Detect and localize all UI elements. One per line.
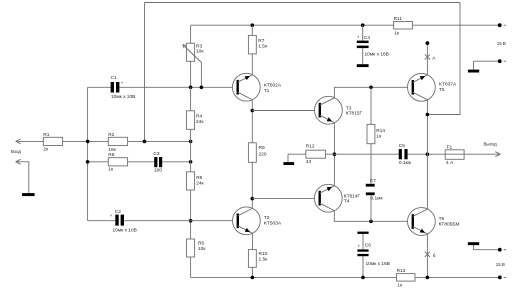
transistor T4 KT814 — [314, 184, 360, 212]
svg-text:0.1мк: 0.1мк — [399, 160, 412, 166]
node -15V terminal — [498, 276, 502, 280]
svg-text:10мк x 10В: 10мк x 10В — [113, 227, 137, 233]
svg-text:+: + — [357, 35, 360, 40]
wire T6 emitter down — [426, 234, 428, 278]
wire C2 line to T2 base — [88, 220, 238, 222]
capacitor C6 — [362, 234, 364, 278]
wire T2 emitter to R10 — [251, 233, 253, 249]
svg-text:КТ814Г: КТ814Г — [344, 193, 361, 199]
node test point A — [425, 54, 430, 59]
svg-text:R9: R9 — [259, 145, 265, 151]
node ground terminal top — [498, 59, 502, 63]
svg-text:R8: R8 — [108, 152, 114, 158]
wire input line — [16, 140, 191, 142]
svg-text:R13: R13 — [397, 268, 406, 274]
node terminal A — [426, 41, 430, 45]
svg-text:R10: R10 — [259, 251, 268, 257]
svg-text:Выход: Выход — [484, 142, 498, 147]
wire R3 column top — [190, 25, 192, 43]
ground C4 — [357, 64, 369, 67]
resistor R13 — [397, 274, 415, 282]
ground input — [22, 193, 34, 196]
ground bottom right — [468, 242, 479, 245]
resistor R6 — [187, 239, 195, 257]
svg-text:R1: R1 — [43, 132, 49, 138]
svg-text:T1: T1 — [264, 88, 270, 94]
node T2 collector junction — [251, 197, 255, 201]
svg-text:T6: T6 — [439, 216, 445, 222]
transistor T2 KT503A — [233, 207, 282, 235]
wire R10 bottom — [251, 267, 253, 277]
wire T5 emitter terminal column — [426, 43, 428, 75]
node input bus junction — [86, 140, 90, 144]
svg-text:43: 43 — [306, 159, 312, 165]
node R4 bottom junction — [189, 140, 193, 144]
capacitor C5 — [399, 149, 402, 159]
resistor R7 — [248, 35, 256, 54]
svg-text:C4: C4 — [364, 35, 370, 41]
svg-text:C3: C3 — [153, 151, 159, 157]
svg-text:C5: C5 — [399, 143, 405, 149]
svg-text:C6: C6 — [365, 243, 371, 249]
svg-text:16к: 16к — [108, 147, 116, 153]
svg-text:KT503A: KT503A — [264, 220, 282, 226]
node wiper-base junction — [200, 86, 204, 90]
svg-text:C1: C1 — [111, 75, 117, 81]
svg-text:1.5к: 1.5к — [258, 44, 268, 50]
node C3-R5 junction — [189, 160, 193, 164]
node test point b — [425, 252, 430, 257]
node R10 bottom junction — [251, 276, 255, 280]
node rail-C4 junction — [361, 23, 365, 27]
svg-text:R2: R2 — [108, 132, 114, 138]
wire C5 to F1 — [408, 153, 446, 155]
wire left frame vertical — [144, 3, 146, 142]
capacitor C3 — [154, 157, 157, 167]
transistor T6 KT805 — [408, 208, 460, 236]
node emitters R12 junction — [333, 152, 337, 156]
resistor R14 — [367, 124, 375, 143]
wire T1 base line with C1 — [88, 86, 238, 88]
wire top right ground branch — [474, 61, 500, 69]
resistor R11 — [394, 22, 413, 30]
wire +15V rail — [191, 24, 500, 26]
node T5-frame junction — [426, 113, 430, 117]
wire top feedback frame — [145, 2, 461, 4]
wire R3 bottom — [190, 61, 192, 87]
svg-text:R3: R3 — [196, 43, 202, 49]
node rail-R7 junction — [251, 23, 255, 27]
ground C6 top — [357, 232, 368, 234]
capacitor C7 — [366, 184, 375, 187]
node T6 emitter junction — [426, 276, 430, 280]
wire input arrow — [16, 139, 21, 144]
node T1 collector junction — [251, 109, 255, 113]
svg-text:KT837A: KT837A — [439, 82, 457, 88]
svg-text:T4: T4 — [344, 198, 350, 204]
svg-text:R11: R11 — [394, 16, 403, 22]
wire R8 line with C3 — [88, 161, 191, 163]
svg-text:КТ805БМ: КТ805БМ — [439, 221, 460, 227]
svg-text:R14: R14 — [376, 128, 385, 134]
ground R12 — [283, 162, 294, 165]
svg-text:1.5к: 1.5к — [259, 257, 269, 263]
svg-text:10мк x 10В: 10мк x 10В — [111, 94, 135, 100]
svg-text:10мк x 16В: 10мк x 16В — [365, 51, 389, 57]
svg-text:F1: F1 — [447, 145, 453, 151]
resistor R4 — [187, 111, 195, 130]
node C6 bottom junction — [361, 276, 365, 280]
svg-text:R7: R7 — [258, 38, 264, 44]
wire T1 collector to R9 — [251, 100, 253, 143]
svg-text:100: 100 — [154, 168, 162, 174]
wire R14 C7 column — [370, 87, 372, 221]
svg-text:б: б — [433, 253, 436, 259]
transistor T1 KT502A — [232, 73, 281, 101]
wire right frame vertical — [427, 3, 460, 115]
wire T5 collector down — [426, 100, 428, 209]
wire R12 ground branch — [288, 154, 306, 162]
svg-text:КТ815Г: КТ815Г — [346, 111, 363, 117]
svg-text:R5: R5 — [196, 175, 202, 181]
svg-text:15 В: 15 В — [496, 262, 505, 267]
capacitor C1 — [111, 82, 114, 93]
svg-text:4 А: 4 А — [446, 160, 454, 166]
svg-text:0.1мк: 0.1мк — [371, 195, 384, 201]
wire input ground branch — [16, 162, 29, 193]
svg-text:24к: 24к — [196, 119, 204, 125]
wire R12 to output line — [326, 153, 399, 155]
svg-text:220: 220 — [259, 151, 267, 157]
svg-text:T3: T3 — [346, 105, 352, 111]
node R8 bus junction — [86, 160, 90, 164]
wire T2c to T4 base — [252, 198, 319, 200]
svg-text:+: + — [110, 213, 113, 218]
svg-text:C2: C2 — [115, 209, 121, 215]
svg-text:T2: T2 — [264, 215, 270, 221]
resistor R5 — [187, 172, 195, 190]
svg-text:R6: R6 — [198, 240, 204, 246]
wire R9 bottom — [251, 162, 253, 208]
resistor R2 — [108, 137, 127, 145]
svg-text:R4: R4 — [196, 113, 202, 119]
wire R7 column — [251, 25, 253, 75]
svg-text:24к: 24к — [196, 180, 204, 186]
capacitor C4 with ground — [362, 25, 364, 64]
wire middle column R4 R5 R6 — [190, 87, 192, 277]
wire T1c to T3 base — [252, 110, 319, 112]
svg-text:10мк x 16В: 10мк x 16В — [366, 261, 390, 267]
resistor R1 — [43, 137, 62, 145]
svg-text:+: + — [358, 243, 361, 248]
node R3-base junction — [189, 86, 193, 90]
resistor R3 trimmer — [187, 43, 195, 61]
ground top right — [468, 70, 479, 73]
wire left bus vertical x87 — [87, 87, 89, 220]
wire T3 collector up and to T5 base — [334, 87, 413, 98]
wire output arrow — [464, 152, 500, 157]
svg-text:10к: 10к — [198, 246, 206, 252]
transistor T3 KT815 — [315, 96, 363, 124]
node ground terminal bottom — [498, 248, 502, 252]
resistor R8 — [108, 158, 127, 166]
node +15V terminal — [498, 23, 502, 27]
node C2-R5-R6 junction — [189, 219, 193, 223]
svg-text:Вход: Вход — [11, 149, 21, 154]
resistor R10 — [248, 250, 256, 268]
wire bottom rail — [191, 276, 500, 278]
wire bottom right ground branch — [474, 245, 500, 250]
svg-text:T5: T5 — [439, 87, 445, 93]
svg-text:C7: C7 — [370, 178, 376, 184]
fuse F1 — [445, 150, 464, 160]
capacitor C2 — [115, 215, 118, 226]
svg-text:R12: R12 — [306, 144, 315, 150]
resistor R12 — [306, 150, 326, 158]
node feedback junction — [143, 140, 147, 144]
svg-text:15 В: 15 В — [497, 41, 506, 46]
node R14 top junction — [369, 86, 373, 90]
node C7 bottom junction — [369, 220, 373, 224]
wire T3 emitter to T4 emitter — [333, 123, 335, 186]
node output junction — [426, 152, 430, 156]
svg-text:10к: 10к — [196, 48, 204, 54]
resistor R9 — [248, 143, 256, 163]
transistor T5 KT837A — [408, 73, 458, 101]
wire T4 collector to T6 base — [334, 211, 412, 222]
svg-text:+: + — [121, 81, 124, 86]
svg-text:KT502A: KT502A — [264, 83, 282, 89]
